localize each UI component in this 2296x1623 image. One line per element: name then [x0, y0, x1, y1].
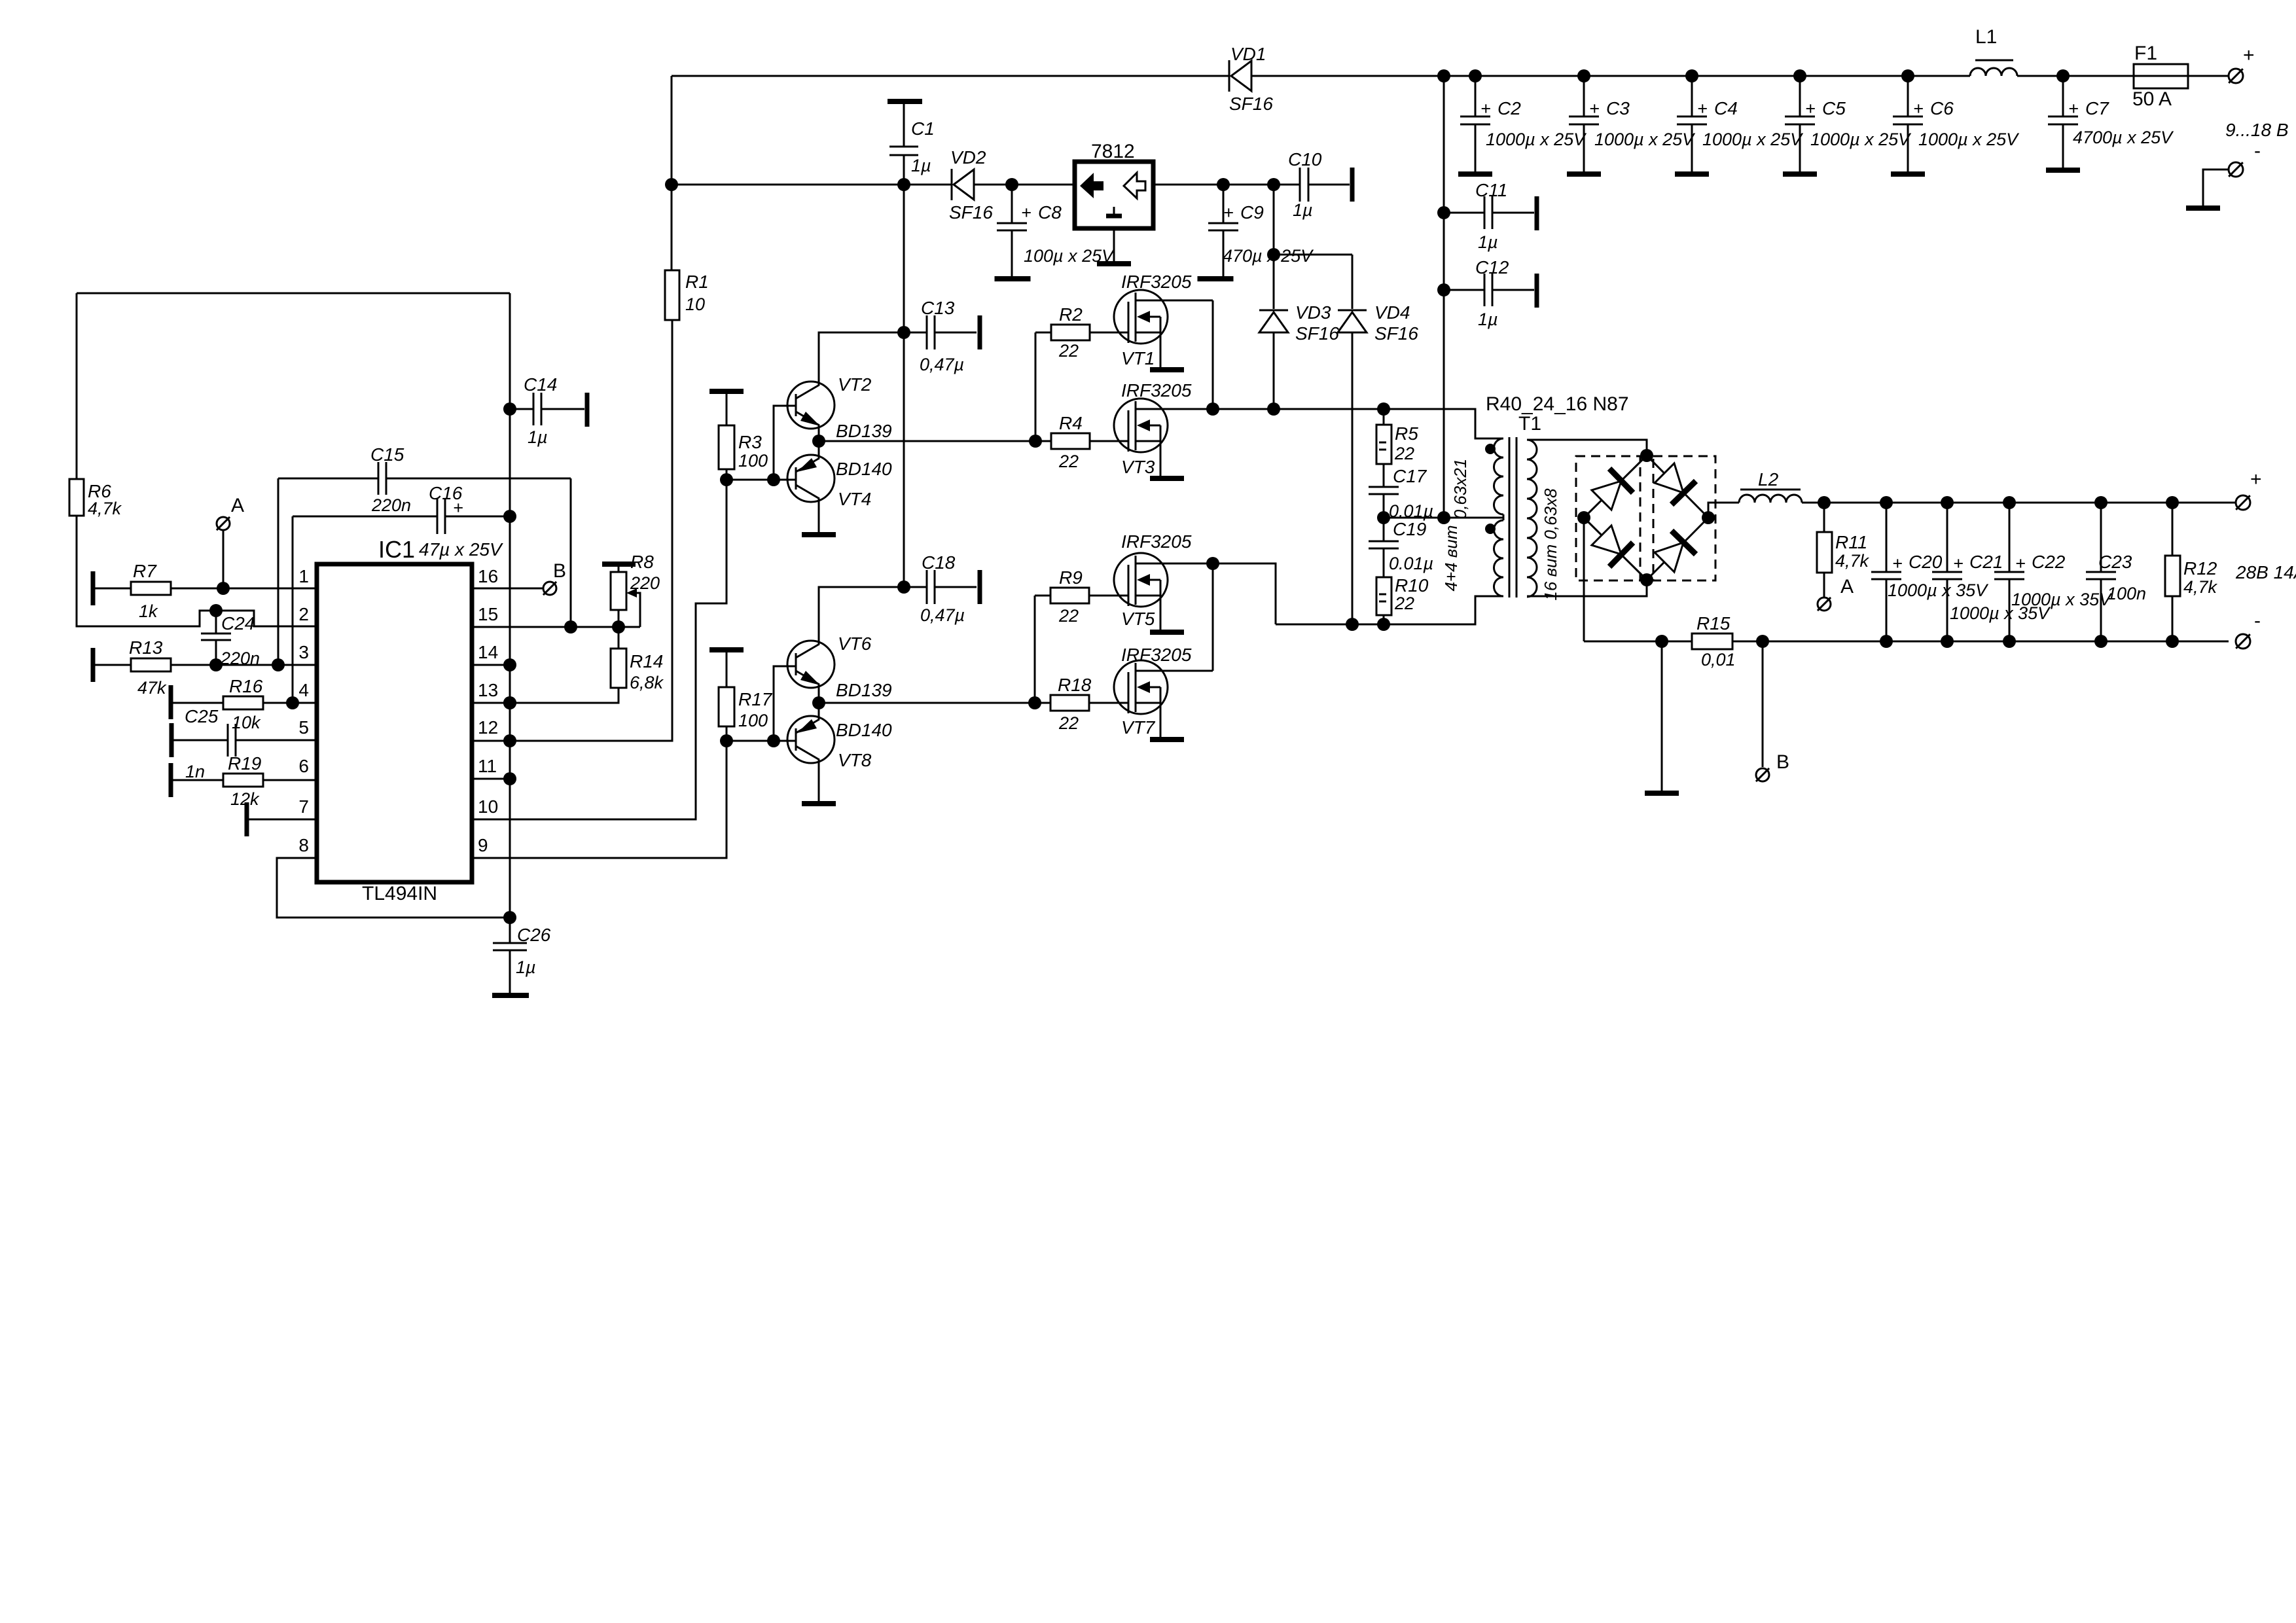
wire C10 right lead — [1308, 184, 1350, 186]
svg-text:VT6: VT6 — [838, 633, 872, 654]
wire bridge + to L2 — [1708, 503, 1739, 518]
wire primary inner join — [1503, 514, 1505, 520]
wire C5 bottom lead — [1799, 124, 1801, 173]
wire R18 to VT7 gate — [1089, 702, 1128, 704]
bridge diode D2 (top-right) — [1655, 463, 1696, 505]
svg-text:+: + — [1021, 203, 1031, 223]
polarity dot primary upper — [1485, 444, 1496, 454]
capacitor C14 — [533, 393, 541, 425]
IC U1 TL494 body — [317, 564, 472, 882]
transistor VT6 — [787, 641, 834, 688]
svg-text:+: + — [2068, 99, 2079, 118]
wire node to C19 — [1383, 518, 1385, 541]
wire center tap bus — [1443, 76, 1445, 518]
wire R3 top lead — [726, 391, 728, 425]
wire bridge - riser — [1583, 518, 1585, 641]
svg-text:+: + — [1805, 99, 1816, 118]
wire second rail segment 2 — [974, 184, 1075, 186]
wire lower drain row — [1276, 596, 1503, 624]
capacitor C4 — [1677, 116, 1707, 124]
ground C7 — [2046, 168, 2080, 173]
node snubber mid — [1377, 511, 1390, 524]
terminal B right — [1756, 768, 1769, 781]
wire VT6 base riser — [774, 666, 796, 741]
wire bridge edge bottom-right — [1647, 518, 1708, 580]
svg-text:L1: L1 — [1975, 26, 1997, 48]
wire VD4 top lead — [1352, 255, 1354, 309]
svg-text:R17: R17 — [738, 689, 773, 709]
svg-text:11: 11 — [478, 756, 497, 776]
wire R12 top lead — [2172, 503, 2174, 556]
junction dots second rail — [897, 178, 1280, 191]
wire C26 top lead — [509, 918, 511, 943]
svg-text:C26: C26 — [517, 925, 551, 945]
svg-text:C5: C5 — [1822, 98, 1846, 118]
svg-text:100n: 100n — [2107, 584, 2146, 603]
wire C3 bottom lead — [1583, 124, 1585, 173]
svg-text:-: - — [2254, 140, 2261, 162]
junction pin13 bus — [503, 696, 516, 709]
svg-text:SF16: SF16 — [1374, 323, 1418, 344]
potentiometer R8 wiper — [626, 588, 640, 627]
svg-text:7: 7 — [298, 796, 309, 817]
svg-text:SF16: SF16 — [1229, 94, 1273, 114]
wire R9 left lead — [1035, 595, 1050, 597]
wire C4 bottom lead — [1691, 124, 1693, 173]
svg-text:IRF3205: IRF3205 — [1121, 272, 1192, 292]
wire VT2 base riser — [774, 406, 796, 480]
wire VT5 source — [1160, 596, 1162, 630]
junction dots VCC bus — [503, 402, 516, 924]
svg-text:C14: C14 — [524, 374, 557, 395]
wire R11 top lead — [1823, 503, 1825, 532]
bridge diode D1 (left-top) — [1592, 469, 1633, 510]
resistor R6 — [69, 479, 84, 516]
svg-text:R3: R3 — [738, 432, 762, 452]
svg-text:VD3: VD3 — [1295, 302, 1331, 323]
svg-text:VT7: VT7 — [1121, 717, 1156, 738]
terminal bar C18 — [978, 570, 982, 604]
junction pin4 C16 — [286, 696, 299, 709]
wire R7 to pin1 — [171, 588, 317, 590]
terminal B left — [543, 582, 556, 595]
wire VT5 drain — [1136, 563, 1213, 565]
wire pin10 to driver A — [472, 480, 726, 819]
wire upper base row — [726, 479, 796, 481]
wire C14 right lead — [541, 408, 584, 410]
wire upper driver output — [819, 440, 1035, 442]
svg-text:16: 16 — [478, 566, 498, 586]
wire C6 bottom lead — [1907, 124, 1909, 173]
svg-text:C9: C9 — [1240, 202, 1264, 223]
capacitor C3 — [1569, 116, 1599, 124]
wire C14 left lead — [510, 408, 533, 410]
wire second rail segment 1 — [672, 184, 952, 186]
terminal battery - — [2229, 162, 2243, 177]
svg-text:1000µ x 25V: 1000µ x 25V — [1810, 130, 1912, 149]
svg-text:R1: R1 — [685, 272, 709, 292]
wire C17 to node — [1383, 494, 1385, 518]
wire R8 bottom lead — [618, 610, 620, 627]
svg-text:R4: R4 — [1059, 413, 1083, 433]
wire R9 riser — [1034, 596, 1036, 703]
terminal bar C10 — [1350, 168, 1355, 202]
ground 7812 — [1097, 261, 1131, 266]
svg-text:3: 3 — [298, 642, 309, 662]
wire pin8 loop — [277, 858, 510, 918]
wire C13 right lead — [935, 332, 977, 334]
wire second rail segment 3 — [1153, 184, 1300, 186]
wire C25 to pin5 — [236, 740, 317, 741]
ground C6 — [1891, 171, 1925, 177]
label C9 — [1223, 202, 1314, 266]
transistor VT7 — [1114, 660, 1168, 714]
diode VD1 — [1229, 60, 1251, 92]
svg-text:L2: L2 — [1758, 469, 1779, 490]
svg-text:C20: C20 — [1909, 552, 1943, 572]
wire pin11 stub — [472, 778, 510, 780]
svg-text:220n: 220n — [371, 495, 411, 515]
wire top rail right section — [1251, 75, 1970, 77]
capacitor C2 — [1460, 116, 1490, 124]
junction dots lower base row — [720, 734, 780, 747]
wire VT1 drain — [1136, 300, 1213, 302]
svg-text:C3: C3 — [1606, 98, 1630, 118]
transistor VT5 — [1114, 553, 1168, 607]
wire snubber mid to tap — [1384, 517, 1503, 519]
terminal A left — [217, 517, 230, 530]
svg-text:R5: R5 — [1395, 423, 1418, 444]
svg-text:10: 10 — [478, 796, 498, 817]
svg-text:R12: R12 — [2183, 558, 2217, 579]
label C21 — [1950, 552, 2051, 623]
junction dots C13 bus — [897, 326, 910, 594]
resistor R9 — [1050, 588, 1089, 603]
wire top rail L1 to terminal — [2017, 75, 2229, 77]
junction dots upper base row — [720, 473, 780, 486]
capacitor C15 — [378, 462, 386, 495]
capacitor C20 — [1871, 572, 1901, 579]
ground C4 — [1675, 171, 1709, 177]
terminal bar C25 left — [170, 723, 174, 757]
svg-text:C25: C25 — [185, 706, 219, 726]
svg-text:VT2: VT2 — [838, 374, 872, 395]
terminal bar C13 — [978, 315, 982, 349]
svg-text:C7: C7 — [2085, 98, 2109, 118]
svg-text:1000µ x 35V: 1000µ x 35V — [1888, 580, 1989, 600]
wire bridge edge top-right — [1647, 455, 1708, 518]
polarity dot primary lower — [1485, 524, 1496, 534]
terminal bar R7 left — [91, 571, 96, 605]
wire left vertical from top rail — [671, 76, 673, 185]
wire C4 top lead — [1691, 76, 1693, 116]
wire bottom rail left — [1584, 641, 1692, 643]
wire R15 ground riser — [1661, 641, 1663, 791]
svg-text:50 A: 50 A — [2132, 88, 2172, 110]
wire C22 bottom lead — [2009, 579, 2011, 641]
junction dots upper drain row — [1206, 402, 1390, 416]
wire pin16 to B — [472, 588, 543, 590]
wire C7 top lead — [2062, 76, 2064, 116]
terminal output + — [2236, 495, 2250, 510]
svg-text:1µ: 1µ — [516, 957, 536, 977]
svg-text:1µ: 1µ — [1478, 310, 1498, 329]
svg-text:1000µ x 25V: 1000µ x 25V — [1594, 130, 1696, 149]
svg-text:+: + — [1480, 99, 1491, 118]
wire pin7 — [249, 819, 317, 821]
wire R8 top lead — [618, 564, 620, 572]
wire feedback top — [77, 293, 510, 294]
svg-text:C4: C4 — [1714, 98, 1738, 118]
ground battery minus — [2186, 205, 2220, 211]
svg-text:+: + — [1953, 554, 1964, 573]
svg-text:R8: R8 — [630, 552, 654, 572]
svg-text:12: 12 — [478, 717, 498, 738]
wire C15 riser — [278, 478, 279, 665]
wire C13 bus — [903, 185, 905, 587]
svg-text:SF16: SF16 — [1295, 323, 1339, 344]
svg-text:C2: C2 — [1498, 98, 1521, 118]
junction dots tap bus — [1437, 206, 1450, 296]
wire VT6 collector — [819, 587, 904, 644]
fuse F1 — [2134, 64, 2188, 88]
wire C2 top lead — [1475, 76, 1477, 116]
capacitor C24 — [201, 633, 231, 640]
svg-text:R18: R18 — [1058, 675, 1092, 695]
ground C3 — [1567, 171, 1601, 177]
wire R11 bottom lead — [1823, 573, 1825, 597]
ground C26 — [492, 993, 529, 998]
wire C23 top lead — [2100, 503, 2102, 572]
terminal bar C1 top — [888, 99, 922, 104]
wire VT1 drain bus — [1212, 300, 1214, 409]
wire C24 top lead — [215, 611, 217, 633]
wire C11 right lead — [1492, 212, 1534, 214]
svg-text:220: 220 — [630, 573, 660, 593]
wire R13 to pin3 — [171, 664, 317, 666]
resistor R17 — [719, 687, 734, 726]
svg-text:+: + — [453, 498, 463, 518]
potentiometer R8 — [611, 572, 626, 610]
wire C22 top lead — [2009, 503, 2011, 572]
svg-text:VT3: VT3 — [1121, 457, 1155, 477]
svg-text:4,7k: 4,7k — [88, 499, 122, 518]
wire R4 left lead — [1035, 440, 1051, 442]
svg-text:1µ: 1µ — [911, 156, 931, 175]
resistor R12 — [2165, 556, 2180, 596]
junction dots top rail — [1437, 69, 2070, 82]
svg-text:C12: C12 — [1475, 257, 1509, 277]
wire C20 top lead — [1886, 503, 1888, 572]
svg-text:R9: R9 — [1059, 567, 1083, 588]
wire C6 top lead — [1907, 76, 1909, 116]
svg-text:1000µ x 35V: 1000µ x 35V — [2011, 590, 2113, 609]
svg-text:4,7k: 4,7k — [1835, 551, 1870, 571]
terminal bar R19 left — [169, 763, 173, 797]
wire pin15 row — [472, 626, 640, 628]
wire second rail to R1 — [671, 185, 673, 270]
svg-text:22: 22 — [1058, 452, 1079, 471]
node VD3 VD4 top — [1267, 248, 1280, 261]
transistor VT2 — [787, 382, 834, 429]
svg-text:R40_24_16 N87: R40_24_16 N87 — [1486, 393, 1629, 415]
svg-text:1k: 1k — [139, 601, 158, 621]
label C3 — [1589, 98, 1696, 149]
capacitor C19 — [1369, 541, 1399, 548]
svg-text:VT4: VT4 — [838, 489, 871, 509]
svg-text:+: + — [1589, 99, 1600, 118]
svg-text:B: B — [1776, 751, 1789, 773]
svg-text:VD2: VD2 — [950, 147, 986, 168]
capacitor C11 — [1484, 196, 1492, 229]
wire upper drain row — [1213, 409, 1503, 438]
wire pin9 to driver B — [472, 741, 726, 858]
svg-text:14: 14 — [478, 642, 498, 662]
terminal bar R3 top — [709, 389, 744, 394]
svg-text:C21: C21 — [1969, 552, 2003, 572]
svg-text:R10: R10 — [1395, 575, 1429, 596]
resistor R11 — [1817, 532, 1832, 573]
svg-text:-: - — [2254, 610, 2261, 632]
svg-text:28В 14А: 28В 14А — [2235, 562, 2296, 582]
wire R14 top lead — [618, 627, 620, 649]
wire C12 right lead — [1492, 289, 1534, 291]
svg-text:VT5: VT5 — [1121, 609, 1155, 629]
svg-text:IRF3205: IRF3205 — [1121, 645, 1192, 665]
inductor L1 core line — [1975, 60, 2013, 62]
terminal bar pin7 — [245, 802, 249, 836]
label C5 — [1805, 98, 1912, 149]
capacitor C21 — [1932, 572, 1962, 579]
capacitor C9 — [1208, 223, 1238, 230]
terminal output - — [2236, 634, 2250, 649]
svg-text:2: 2 — [298, 604, 309, 624]
wire C5 top lead — [1799, 76, 1801, 116]
capacitor C10 — [1300, 168, 1308, 202]
label C4 — [1697, 98, 1804, 149]
wire C12 left lead — [1444, 289, 1484, 291]
terminal bar R8 top — [602, 562, 636, 567]
svg-text:1: 1 — [298, 566, 309, 586]
svg-text:22: 22 — [1058, 606, 1079, 626]
wire C9 bottom lead — [1223, 230, 1225, 277]
svg-text:A: A — [1840, 576, 1854, 597]
svg-text:+: + — [2243, 45, 2255, 66]
svg-text:F1: F1 — [2134, 43, 2157, 64]
svg-text:7812: 7812 — [1091, 141, 1135, 162]
wire VT4 emitter — [818, 441, 820, 458]
svg-text:22: 22 — [1058, 713, 1079, 733]
wire R3 bottom lead — [726, 469, 728, 480]
wire R16 to pin4 — [263, 702, 317, 704]
svg-text:+: + — [2250, 469, 2262, 490]
wire VD4 bottom lead — [1352, 332, 1354, 624]
svg-text:R16: R16 — [229, 676, 263, 696]
ground VT3 — [1150, 476, 1184, 481]
wire VT7 drain — [1136, 670, 1213, 672]
wire R18 left lead — [1035, 702, 1050, 704]
resistor R16 — [223, 696, 263, 709]
wire VD3 top lead — [1273, 255, 1275, 309]
wire C21 top lead — [1946, 503, 1948, 572]
wire C19 to R10 — [1383, 548, 1385, 577]
svg-text:C8: C8 — [1038, 202, 1062, 223]
wire R19 left — [173, 779, 223, 781]
wire VT2 emitter — [818, 425, 820, 441]
wire to VD4 top — [1274, 254, 1352, 256]
svg-text:C18: C18 — [922, 552, 956, 573]
terminal bar C12 — [1535, 274, 1539, 308]
svg-text:4,7k: 4,7k — [2183, 577, 2218, 597]
label C20 — [1888, 552, 1989, 600]
transformer T1 core — [1509, 437, 1516, 597]
wire R12 bottom lead — [2172, 596, 2174, 641]
wire VT1 source — [1160, 332, 1162, 367]
wire R6 top lead — [76, 293, 78, 479]
svg-text:0,63x21: 0,63x21 — [1450, 459, 1470, 520]
wire C1 top lead — [903, 104, 905, 147]
wire battery - to ground — [2203, 169, 2229, 207]
ground VT5 — [1150, 630, 1184, 635]
wire VT3 source — [1160, 441, 1162, 476]
resistor R13 — [131, 658, 171, 671]
svg-text:C13: C13 — [921, 298, 955, 318]
svg-text:C23: C23 — [2098, 552, 2132, 572]
wire R7 left — [95, 588, 131, 590]
wire VT7 source — [1160, 703, 1162, 737]
junction R15 left — [1655, 635, 1668, 648]
transformer T1 primary lower winding — [1494, 520, 1504, 596]
wire VT4 collector — [818, 499, 820, 532]
svg-text:9: 9 — [478, 835, 488, 855]
svg-text:TL494IN: TL494IN — [362, 883, 437, 904]
svg-text:B: B — [553, 560, 566, 582]
svg-text:C10: C10 — [1288, 149, 1322, 169]
wire R2 riser — [1035, 332, 1037, 441]
ground VT7 — [1150, 737, 1184, 742]
wire C8 bottom lead — [1011, 230, 1013, 277]
wire C7 bottom lead — [2062, 124, 2064, 169]
svg-text:BD140: BD140 — [836, 459, 892, 479]
junction dots bottom rail — [1756, 635, 2179, 648]
wire R4 to VT3 gate — [1090, 440, 1128, 442]
wire C16 riser — [292, 516, 294, 703]
capacitor C1 — [889, 147, 918, 155]
svg-text:C17: C17 — [1393, 466, 1427, 486]
terminal bar R16 left — [169, 685, 173, 719]
wire VT3 drain — [1136, 408, 1213, 410]
svg-text:22: 22 — [1394, 444, 1414, 463]
svg-text:1µ: 1µ — [528, 427, 548, 447]
svg-text:R19: R19 — [228, 753, 261, 774]
svg-text:15: 15 — [478, 604, 498, 624]
inductor L2 core line — [1740, 489, 1801, 491]
wire C13 left lead — [904, 332, 927, 334]
svg-text:R13: R13 — [129, 637, 163, 658]
svg-text:1µ: 1µ — [1478, 232, 1498, 252]
svg-text:C24: C24 — [221, 613, 255, 633]
resistor R3 — [719, 425, 734, 469]
wire VT8 emitter — [818, 703, 820, 719]
wire C3 top lead — [1583, 76, 1585, 116]
wire R16 left — [173, 702, 223, 704]
svg-text:4700µ x 25V: 4700µ x 25V — [2073, 128, 2174, 147]
wire VD3 riser — [1273, 185, 1275, 255]
wire R2 left lead — [1035, 332, 1051, 334]
resistor R15 — [1692, 633, 1732, 649]
svg-text:1µ: 1µ — [1293, 200, 1313, 220]
terminal A right — [1818, 597, 1831, 611]
